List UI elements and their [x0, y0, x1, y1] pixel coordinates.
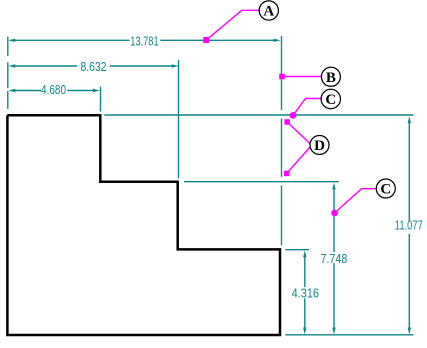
extension line y=181.7 horizontal [184, 181, 339, 183]
extension line x=178.5 [178, 60, 180, 178]
svg-text:C: C [380, 181, 391, 197]
svg-text:4.680: 4.680 [41, 83, 66, 97]
svg-text:D: D [314, 138, 325, 154]
dimension 4.316 [292, 250, 319, 334]
extension line y=249.7 horizontal [285, 249, 309, 251]
svg-text:7.748: 7.748 [321, 252, 348, 266]
balloon B [321, 67, 340, 86]
leader A [203, 10, 259, 43]
leader C1 [290, 99, 322, 119]
extension line x=100.5 [100, 87, 102, 112]
balloon A [259, 1, 278, 20]
balloon C1 [321, 89, 340, 108]
dimension 8.632 [8, 60, 178, 74]
extension line y=114.7 horizontal [104, 114, 413, 116]
balloon C2 [376, 179, 395, 198]
leader C2 [331, 189, 376, 217]
dimension 13.781 [8, 34, 280, 48]
dimension 7.748 [321, 183, 348, 335]
svg-text:A: A [263, 3, 274, 19]
svg-text:4.316: 4.316 [292, 286, 319, 300]
extension line x=281.5 [281, 36, 283, 245]
svg-text:11.077: 11.077 [395, 218, 423, 232]
svg-text:B: B [326, 70, 336, 86]
svg-text:13.781: 13.781 [130, 34, 158, 48]
svg-text:8.632: 8.632 [81, 60, 107, 74]
dimension 4.680 [8, 83, 100, 97]
leader B [279, 74, 321, 80]
extension line left vertical x=7.8 [7, 37, 9, 109]
dimension 11.077 [395, 116, 423, 334]
svg-text:C: C [325, 92, 336, 108]
part outline [7, 115, 280, 335]
extension line y=334.8 horizontal baseline [285, 334, 413, 336]
balloon D [310, 136, 329, 155]
leader D [284, 119, 311, 176]
